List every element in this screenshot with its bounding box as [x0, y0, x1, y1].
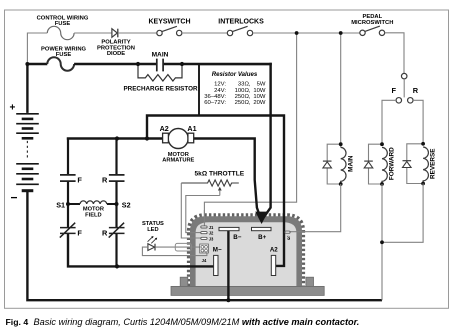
svg-text:S1: S1 [56, 200, 65, 209]
node precharge left [136, 62, 140, 66]
svg-text:100Ω,: 100Ω, [235, 88, 251, 94]
switch F/R selector pole [391, 73, 418, 103]
wire control segment E [253, 32, 360, 34]
battery short plate 5 [22, 178, 34, 181]
fuse control wiring [47, 26, 74, 39]
contact F lower plates with slash [60, 223, 76, 238]
wire J1 feed over rib band [203, 210, 205, 227]
svg-text:J1: J1 [209, 225, 214, 230]
svg-text:5kΩ THROTTLE: 5kΩ THROTTLE [195, 171, 245, 178]
svg-text:F: F [77, 228, 82, 237]
wire control segment D [182, 32, 227, 34]
wire control segment C [118, 32, 157, 34]
svg-text:A1: A1 [187, 124, 196, 133]
wire R contact to reverse coil [413, 100, 423, 144]
battery long plate 3 [16, 132, 39, 134]
wire LED anode return to J4 [142, 247, 207, 256]
wire LED cathode to J4 [155, 246, 200, 248]
wire reverse coil return [382, 184, 423, 243]
fuse power wiring [47, 57, 74, 70]
controller U1 heatsink fins [190, 216, 302, 286]
wire field right branch upper [115, 139, 117, 175]
controller base plate [171, 286, 324, 295]
terminal B+ [252, 227, 272, 230]
svg-text:J3: J3 [209, 236, 214, 241]
node armature bus left [115, 136, 119, 140]
node S1 [66, 202, 70, 206]
pin J1 [201, 226, 207, 228]
wire power bus segment B [74, 63, 156, 65]
node field bottom [115, 264, 119, 268]
svg-text:A2: A2 [160, 124, 169, 133]
contactor coil MAIN with diode [323, 142, 355, 186]
svg-text:J4: J4 [202, 258, 207, 263]
wire field left branch middle [67, 182, 69, 227]
svg-text:J5: J5 [286, 236, 291, 241]
wire control segment B [74, 32, 112, 34]
switch pedal microswitch [351, 14, 393, 35]
battery short plate 6 [22, 189, 34, 192]
wire main coil to controller coil driver pin [290, 184, 341, 232]
svg-text:33Ω,: 33Ω, [238, 82, 251, 88]
svg-text:FORWARD: FORWARD [388, 147, 395, 180]
battery long plate 4 [16, 163, 39, 165]
svg-text:J2: J2 [209, 231, 214, 236]
diode polarity protection [112, 29, 117, 38]
controller mounting post left [180, 277, 188, 286]
connector J4 [200, 244, 209, 263]
wire throttle wiper to J2 [186, 196, 220, 233]
switch interlocks [218, 19, 264, 36]
svg-text:B+: B+ [258, 234, 266, 241]
terminal M- [214, 255, 218, 275]
svg-text:LED: LED [147, 227, 158, 233]
resistor precharge loop [138, 65, 182, 81]
wire microswitch to F/R selector [385, 33, 404, 74]
LED plug housing [175, 243, 191, 251]
wire F contact to forward coil [382, 100, 396, 144]
throttle potentiometer 5k [181, 171, 244, 196]
wire control riser from battery [27, 33, 47, 64]
node battery tap [25, 62, 29, 66]
node keyswitch branch [295, 31, 299, 35]
svg-text:F: F [77, 175, 82, 184]
controller U1 body shell [190, 216, 302, 286]
contactor coil FORWARD with diode [364, 142, 395, 186]
svg-text:MAIN: MAIN [348, 155, 355, 172]
svg-text:Basic wiring diagram, Curtis 1: Basic wiring diagram, Curtis 1204M/05M/0… [34, 317, 360, 327]
contactor MAIN contact bars [157, 59, 163, 72]
contact R upper plates [109, 175, 125, 181]
wire battery to armature (A2 side) [68, 137, 164, 138]
wire armature A2 to controller A2 terminal [147, 116, 284, 266]
motor armature M1 [160, 124, 197, 164]
wire S1 to S2 through field coil [68, 203, 117, 205]
status LED D2 [142, 221, 164, 250]
node armature bus right [145, 136, 149, 140]
battery short plate 1 [22, 118, 34, 121]
wire armature A1 to B+ [193, 139, 261, 220]
terminal A2 [271, 255, 275, 275]
svg-text:A2: A2 [270, 246, 278, 253]
svg-text:F: F [391, 86, 396, 95]
svg-text:REVERSE: REVERSE [430, 148, 437, 179]
controller U1 body interior [196, 222, 297, 286]
pin J3 [201, 237, 207, 239]
node B- bus [226, 298, 230, 302]
wire field right branch lower [115, 234, 117, 267]
svg-text:+: + [10, 103, 16, 114]
battery long plate 5 [16, 173, 39, 175]
wire throttle low end to J3 [181, 183, 201, 238]
svg-text:60–72V:: 60–72V: [204, 100, 226, 106]
svg-text:12V:: 12V: [214, 82, 226, 88]
wire power bus segment A [26, 63, 47, 65]
svg-text:Resistor Values: Resistor Values [212, 71, 258, 78]
svg-text:−: − [11, 191, 18, 205]
svg-text:20W: 20W [253, 100, 266, 106]
wire B- terminal drop [227, 231, 229, 300]
svg-text:R: R [102, 175, 108, 184]
svg-text:MAIN: MAIN [152, 52, 169, 59]
svg-text:ARMATURE: ARMATURE [162, 158, 194, 164]
svg-text:DIODE: DIODE [107, 51, 125, 57]
svg-text:INTERLOCKS: INTERLOCKS [218, 19, 264, 26]
wire field right branch middle [115, 182, 117, 227]
svg-text:36–48V:: 36–48V: [204, 94, 226, 100]
wire power bus segment C [164, 63, 272, 65]
svg-text:250Ω,: 250Ω, [235, 100, 251, 106]
battery B1 [10, 103, 39, 205]
arrowhead into B+ terminal [255, 212, 268, 224]
svg-text:M−: M− [213, 246, 222, 253]
battery short plate 3 [22, 137, 34, 140]
svg-text:B−: B− [233, 234, 241, 241]
contact R lower plates with slash [109, 223, 125, 238]
battery short plate 2 [22, 127, 34, 130]
svg-text:Fig. 4: Fig. 4 [6, 317, 29, 327]
wire keyswitch line to J1 [204, 33, 296, 227]
wire battery negative to B- bus [27, 192, 382, 301]
svg-text:FIELD: FIELD [85, 212, 101, 218]
pin J2 [201, 232, 207, 234]
pin J5 coil driver [285, 231, 290, 233]
wire forward coil return [381, 184, 383, 242]
svg-text:R: R [102, 228, 108, 237]
svg-text:250Ω,: 250Ω, [235, 94, 251, 100]
battery dashed link [26, 141, 28, 159]
wire coil returns to battery negative bus [381, 242, 383, 300]
resistor values table box [199, 64, 271, 115]
battery long plate 2 [16, 123, 39, 125]
wire field left branch lower to M- bus [68, 234, 215, 267]
switch keyswitch [149, 19, 191, 36]
wire control to main coil [340, 33, 342, 147]
svg-text:10W: 10W [253, 94, 266, 100]
controller mounting post right [306, 277, 314, 286]
inductor motor field coil [80, 201, 107, 204]
wire main contactor to B+ (vertical) [263, 63, 271, 219]
terminal B- [219, 227, 239, 230]
wire field left branch upper [67, 138, 69, 175]
svg-text:S2: S2 [122, 200, 131, 209]
battery short plate 4 [22, 168, 34, 171]
svg-text:10W: 10W [253, 88, 266, 94]
node main coil branch [339, 31, 343, 35]
svg-text:FUSE: FUSE [56, 52, 72, 58]
svg-text:FUSE: FUSE [55, 21, 71, 27]
svg-text:24V:: 24V: [214, 88, 226, 94]
svg-text:MICROSWITCH: MICROSWITCH [351, 20, 393, 26]
svg-text:KEYSWITCH: KEYSWITCH [149, 19, 191, 26]
battery long plate 1 [16, 113, 39, 115]
svg-text:5W: 5W [257, 82, 266, 88]
contactor coil REVERSE with diode [403, 142, 437, 186]
node precharge right [180, 62, 184, 66]
contact F upper plates [60, 175, 76, 181]
node coil return junction [380, 240, 384, 244]
battery long plate 6 [16, 183, 39, 185]
node S2 [115, 202, 119, 206]
wire battery positive riser [26, 65, 28, 113]
svg-text:R: R [413, 86, 419, 95]
svg-text:PRECHARGE RESISTOR: PRECHARGE RESISTOR [123, 85, 198, 92]
